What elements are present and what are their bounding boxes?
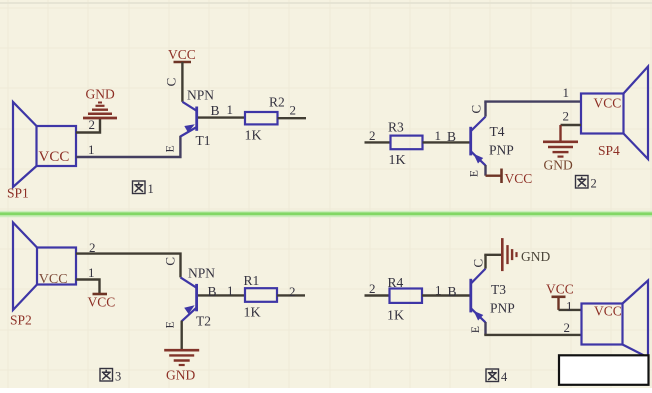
wire node 2 to R4 — [365, 281, 390, 296]
caption fig1 — [133, 181, 154, 196]
svg-text:E: E — [164, 321, 176, 328]
svg-text:E: E — [468, 170, 480, 177]
svg-text:3: 3 — [115, 370, 121, 384]
wire VCC to T1 collector — [181, 62, 183, 102]
svg-text:GND: GND — [86, 87, 115, 102]
svg-text:2: 2 — [89, 240, 96, 255]
svg-text:E: E — [470, 326, 482, 333]
svg-text:R4: R4 — [388, 275, 404, 290]
svg-text:C: C — [163, 257, 178, 266]
svg-text:2: 2 — [290, 103, 297, 118]
wire R1 to node 2 — [277, 284, 305, 299]
svg-text:B: B — [208, 284, 217, 299]
svg-text:1: 1 — [563, 85, 570, 100]
svg-text:PNP: PNP — [490, 301, 515, 316]
wire T3 emitter to SP3 pin2 — [484, 320, 581, 335]
svg-text:B: B — [448, 284, 457, 299]
svg-text:2: 2 — [369, 281, 376, 296]
wire T2 base to R1 — [198, 283, 245, 299]
wire SP4 pin2 to GND — [561, 109, 582, 141]
transistor Q T2 NPN — [181, 265, 216, 328]
svg-text:4: 4 — [501, 370, 508, 384]
svg-text:VCC: VCC — [594, 96, 622, 111]
transistor Q T4 PNP — [471, 117, 514, 166]
wire T4 emitter to VCC port — [486, 165, 502, 176]
speaker SP2 — [10, 223, 76, 328]
svg-text:VCC: VCC — [168, 47, 196, 62]
wire SP2 pin2 to T2 collector — [76, 240, 181, 277]
svg-text:R1: R1 — [244, 273, 260, 288]
svg-text:VCC: VCC — [546, 282, 574, 297]
resistor R2 1K — [245, 95, 285, 144]
wire SP1 pin2 to GND — [76, 117, 100, 133]
watermark cover box — [559, 355, 649, 385]
svg-text:C: C — [163, 78, 178, 87]
svg-text:2: 2 — [289, 284, 296, 299]
svg-text:T2: T2 — [196, 314, 211, 329]
svg-text:VCC: VCC — [594, 304, 622, 319]
VCC power port fig3 — [88, 294, 116, 310]
svg-text:1: 1 — [88, 265, 95, 280]
svg-text:R3: R3 — [388, 120, 404, 135]
svg-text:1: 1 — [435, 128, 442, 143]
svg-text:R2: R2 — [269, 95, 285, 110]
wire VCC port to SP3 pin1 — [559, 299, 582, 314]
wire SP1 pin1 to T1 emitter — [76, 136, 180, 157]
separator line (green) — [0, 211, 652, 218]
svg-text:NPN: NPN — [188, 265, 215, 280]
svg-text:VCC: VCC — [39, 149, 70, 165]
svg-text:1: 1 — [435, 283, 442, 298]
ground (earth) symbol fig4 (rotated) — [502, 238, 550, 271]
resistor R1 1K — [244, 273, 278, 321]
svg-text:SP1: SP1 — [7, 186, 29, 201]
svg-text:VCC: VCC — [88, 295, 116, 310]
VCC power port fig1 — [168, 47, 196, 62]
svg-text:PNP: PNP — [489, 143, 514, 158]
svg-text:2: 2 — [369, 128, 376, 143]
svg-text:1K: 1K — [389, 153, 406, 168]
svg-text:1K: 1K — [245, 129, 262, 144]
svg-text:GND: GND — [521, 249, 550, 264]
svg-text:1: 1 — [88, 142, 95, 157]
caption fig2 — [576, 176, 597, 191]
svg-text:GND: GND — [166, 368, 195, 383]
svg-text:T3: T3 — [491, 282, 506, 297]
caption fig3 — [100, 369, 121, 384]
svg-text:T1: T1 — [196, 133, 211, 148]
svg-text:SP2: SP2 — [10, 313, 32, 328]
svg-text:2: 2 — [591, 177, 597, 191]
svg-text:GND: GND — [544, 158, 573, 173]
svg-text:C: C — [468, 105, 483, 114]
svg-text:1: 1 — [227, 102, 234, 117]
svg-text:VCC: VCC — [505, 171, 533, 186]
ground (earth) symbol fig3 — [164, 350, 199, 382]
svg-text:T4: T4 — [490, 124, 505, 139]
VCC power port fig2 — [502, 169, 533, 187]
wire R4 to T3 base — [422, 283, 470, 300]
svg-text:1K: 1K — [387, 309, 404, 324]
resistor R3 1K — [388, 120, 423, 169]
svg-text:1K: 1K — [244, 306, 261, 321]
svg-text:B: B — [447, 129, 456, 144]
svg-text:VCC: VCC — [39, 272, 68, 287]
wire R2 to node 2 — [278, 103, 307, 119]
svg-text:C: C — [471, 259, 486, 268]
speaker SP4 — [581, 67, 648, 160]
svg-text:SP4: SP4 — [598, 143, 620, 158]
wire T4 collector to SP4 pin1 — [484, 85, 581, 117]
resistor R4 1K — [387, 275, 422, 324]
wire T3 collector to GND — [484, 255, 501, 269]
svg-text:1: 1 — [566, 299, 573, 314]
ground (earth) symbol fig1 — [83, 87, 117, 119]
svg-text:2: 2 — [564, 320, 571, 335]
transistor Q T3 PNP — [471, 269, 515, 323]
VCC power port fig4 — [546, 282, 574, 310]
svg-text:1: 1 — [148, 182, 154, 196]
wire node 2 to R3 — [365, 128, 391, 143]
svg-text:B: B — [211, 103, 220, 118]
svg-text:NPN: NPN — [187, 88, 214, 103]
caption fig4 — [486, 369, 508, 384]
wire T1 base to R2 — [198, 102, 245, 118]
wire R3 to T4 base — [423, 128, 470, 144]
svg-text:1: 1 — [227, 283, 234, 298]
transistor Q T1 NPN — [180, 88, 214, 149]
speaker SP3 — [582, 281, 649, 358]
speaker SP1 — [7, 102, 76, 201]
wire T2 emitter to GND — [180, 321, 182, 349]
ground (earth) symbol fig2 — [543, 142, 578, 173]
wire SP2 pin1 to VCC port — [76, 265, 100, 294]
svg-text:E: E — [164, 145, 176, 152]
svg-text:2: 2 — [563, 109, 570, 124]
